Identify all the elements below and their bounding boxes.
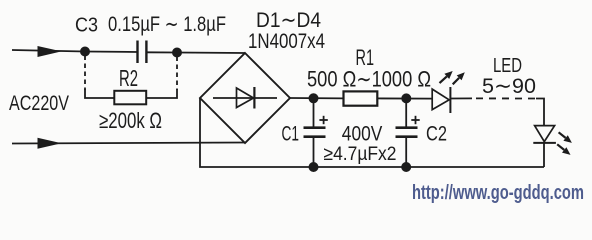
svg-text:D1∼D4: D1∼D4 (256, 8, 321, 32)
svg-text:AC220V: AC220V (9, 92, 69, 115)
svg-text:500 Ω∼1000 Ω: 500 Ω∼1000 Ω (307, 67, 431, 92)
svg-text:R2: R2 (119, 65, 138, 91)
svg-text:5∼90: 5∼90 (482, 74, 536, 98)
svg-text:≥4.7µFx2: ≥4.7µFx2 (324, 143, 397, 165)
svg-text:C1: C1 (282, 122, 300, 146)
svg-text:C3: C3 (75, 14, 98, 36)
svg-text:400V: 400V (342, 122, 383, 146)
svg-text:http://www.go-gddq.com: http://www.go-gddq.com (412, 182, 584, 204)
svg-text:C2: C2 (426, 122, 447, 146)
svg-text:1N4007x4: 1N4007x4 (248, 30, 325, 53)
svg-text:0.15µF ∼ 1.8µF: 0.15µF ∼ 1.8µF (108, 13, 226, 36)
svg-text:≥200k Ω: ≥200k Ω (99, 108, 162, 133)
